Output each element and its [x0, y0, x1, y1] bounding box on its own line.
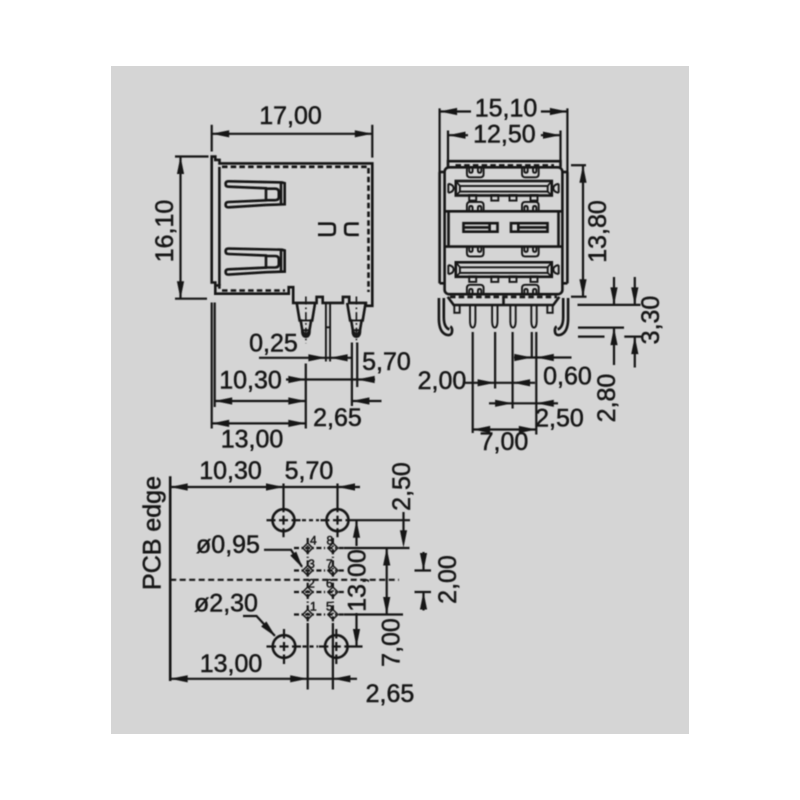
- svg-text:2,50: 2,50: [388, 462, 416, 511]
- svg-text:2,00: 2,00: [418, 367, 467, 395]
- svg-text:2,65: 2,65: [313, 404, 362, 432]
- svg-text:7: 7: [326, 557, 333, 571]
- svg-text:13,00: 13,00: [221, 426, 284, 454]
- svg-text:ø0,95: ø0,95: [196, 531, 260, 559]
- svg-text:7,00: 7,00: [480, 428, 529, 456]
- svg-text:16,10: 16,10: [151, 200, 179, 263]
- svg-text:2,65: 2,65: [366, 680, 415, 708]
- svg-text:15,10: 15,10: [475, 95, 538, 123]
- svg-text:7,00: 7,00: [378, 618, 406, 667]
- svg-text:ø2,30: ø2,30: [194, 590, 258, 618]
- svg-text:5,70: 5,70: [362, 348, 411, 376]
- svg-text:3: 3: [308, 557, 315, 571]
- svg-text:5,70: 5,70: [285, 457, 334, 485]
- svg-text:2,00: 2,00: [434, 555, 462, 604]
- svg-text:0,25: 0,25: [249, 330, 298, 358]
- svg-text:10,30: 10,30: [219, 367, 282, 395]
- svg-text:PCB edge: PCB edge: [139, 476, 167, 590]
- svg-text:1: 1: [310, 599, 317, 613]
- svg-text:2,80: 2,80: [593, 374, 621, 423]
- svg-text:12,50: 12,50: [473, 120, 536, 148]
- svg-text:13,00: 13,00: [344, 549, 372, 612]
- svg-text:5: 5: [326, 599, 333, 613]
- svg-text:4: 4: [310, 533, 317, 547]
- svg-text:13,80: 13,80: [584, 200, 612, 263]
- svg-text:2: 2: [308, 576, 315, 590]
- svg-text:6: 6: [326, 576, 333, 590]
- svg-text:0,60: 0,60: [543, 363, 592, 391]
- svg-text:2,50: 2,50: [535, 405, 584, 433]
- svg-text:10,30: 10,30: [199, 457, 262, 485]
- svg-text:8: 8: [326, 533, 333, 547]
- svg-text:13,00: 13,00: [200, 650, 263, 678]
- svg-text:3,30: 3,30: [637, 296, 665, 345]
- svg-text:17,00: 17,00: [259, 102, 322, 130]
